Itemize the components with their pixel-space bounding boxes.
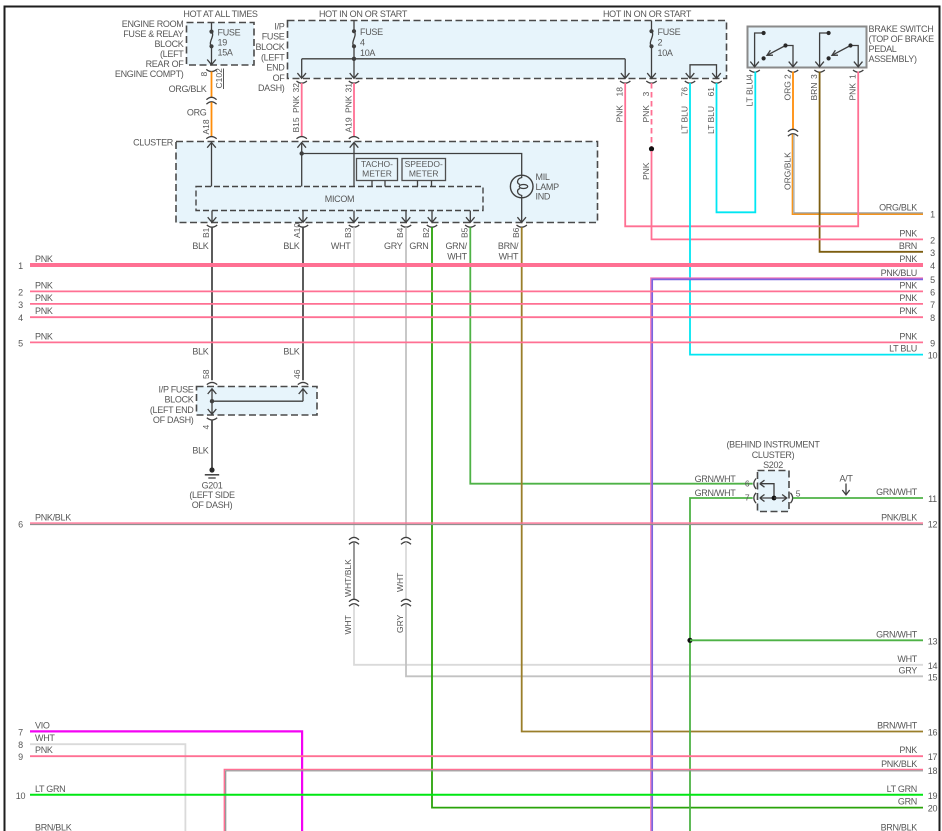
svg-text:6: 6 xyxy=(930,287,935,297)
second inline connector on B3 wire xyxy=(349,599,359,601)
svg-text:(LEFT END: (LEFT END xyxy=(150,405,194,415)
svg-text:BRN: BRN xyxy=(899,241,917,251)
svg-text:PNK/BLU: PNK/BLU xyxy=(881,268,917,278)
svg-text:6: 6 xyxy=(745,478,750,488)
svg-text:4: 4 xyxy=(360,37,365,47)
svg-text:4: 4 xyxy=(744,74,754,79)
svg-text:10: 10 xyxy=(16,791,26,801)
svg-text:GRY: GRY xyxy=(384,241,403,251)
svg-text:OF DASH): OF DASH) xyxy=(153,415,194,425)
brake switch box xyxy=(748,27,867,68)
svg-text:(TOP OF BRAKE: (TOP OF BRAKE xyxy=(869,34,935,44)
svg-text:WHT: WHT xyxy=(447,251,467,261)
svg-text:32: 32 xyxy=(291,83,301,93)
inline connector pair on B3 wire xyxy=(349,537,359,539)
svg-text:4: 4 xyxy=(201,425,211,430)
svg-text:GRN/WHT: GRN/WHT xyxy=(876,487,918,497)
wire GRY to right edge row 15 xyxy=(406,604,923,676)
svg-text:LT GRN: LT GRN xyxy=(35,784,65,794)
wire PNK/BLK row 6 left / 12 right xyxy=(30,522,923,524)
wires inside lower i/p fuse block xyxy=(208,389,308,414)
svg-text:PNK: PNK xyxy=(35,306,53,316)
svg-text:VIO: VIO xyxy=(35,720,50,730)
svg-text:END: END xyxy=(266,63,285,73)
svg-text:PEDAL: PEDAL xyxy=(869,44,897,54)
svg-text:PNK: PNK xyxy=(899,280,917,290)
svg-text:3: 3 xyxy=(930,248,935,258)
svg-text:BLOCK: BLOCK xyxy=(164,395,193,405)
wire PNK 32 (B15) xyxy=(301,83,303,136)
svg-text:B5: B5 xyxy=(460,227,470,238)
wire WHT to right edge row 14 xyxy=(354,604,923,665)
svg-text:GRN/WHT: GRN/WHT xyxy=(876,629,918,639)
right edge labels xyxy=(876,203,918,831)
S202 pin 5 connector xyxy=(774,495,787,502)
svg-text:BLK: BLK xyxy=(192,241,208,251)
svg-text:18: 18 xyxy=(928,766,938,776)
svg-text:BRN/WHT: BRN/WHT xyxy=(877,721,918,731)
wire LT GRN row 10 left / 19 right xyxy=(30,794,923,796)
svg-text:PNK: PNK xyxy=(899,306,917,316)
svg-text:20: 20 xyxy=(928,804,938,814)
svg-text:BRAKE SWITCH: BRAKE SWITCH xyxy=(869,24,934,34)
svg-text:GRY: GRY xyxy=(899,665,918,675)
connector arc at pin 4 xyxy=(207,418,217,420)
svg-text:(LEFT: (LEFT xyxy=(261,52,285,62)
svg-text:19: 19 xyxy=(218,38,228,48)
wire GRN/WHT riser to S202 pin 7 xyxy=(690,498,753,831)
wire PNK row 3 left / 7 right xyxy=(30,303,923,305)
svg-text:LT BLU: LT BLU xyxy=(679,106,689,134)
svg-text:B4: B4 xyxy=(395,227,405,238)
svg-text:ASSEMBLY): ASSEMBLY) xyxy=(869,54,917,64)
wire LT BLU 61 to brake switch pin 4 xyxy=(717,72,756,213)
svg-text:PNK: PNK xyxy=(35,254,53,264)
inline connector pair on B4 wire xyxy=(401,537,411,539)
svg-text:(LEFT: (LEFT xyxy=(160,49,184,59)
svg-text:GRN: GRN xyxy=(898,797,917,807)
svg-text:B1: B1 xyxy=(201,227,211,238)
svg-text:OF DASH): OF DASH) xyxy=(192,500,233,510)
svg-text:3: 3 xyxy=(809,74,819,79)
svg-text:A/T: A/T xyxy=(839,473,853,483)
left edge numbers xyxy=(16,261,26,801)
svg-text:B2: B2 xyxy=(421,227,431,238)
cluster wire color labels xyxy=(192,241,519,261)
connector arcs below cluster xyxy=(207,225,527,227)
svg-text:4: 4 xyxy=(930,261,935,271)
svg-text:1: 1 xyxy=(18,261,23,271)
wire WHT segment xyxy=(405,542,407,599)
svg-text:8: 8 xyxy=(930,313,935,323)
svg-text:PNK: PNK xyxy=(899,331,917,341)
connector arcs at i/p fuse block pins 58 and 46 xyxy=(207,382,217,384)
MIL lamp indicator xyxy=(510,175,533,198)
svg-text:MIL: MIL xyxy=(536,172,550,182)
svg-text:GRN: GRN xyxy=(409,241,428,251)
wire PNK/BLU riser from row 5 xyxy=(651,278,923,831)
svg-text:2: 2 xyxy=(18,287,23,297)
svg-text:PNK: PNK xyxy=(35,280,53,290)
wire ORG from brake switch pin 2 xyxy=(792,72,794,130)
i/p fuse block (lower) label xyxy=(150,385,194,426)
svg-text:BRN/: BRN/ xyxy=(498,241,519,251)
wire GRN/WHT from S202 pin 5 to right edge row 11 xyxy=(793,497,923,499)
svg-text:(LEFT SIDE: (LEFT SIDE xyxy=(189,490,235,500)
junction on GRN/WHT riser xyxy=(687,638,692,643)
svg-text:PNK: PNK xyxy=(35,331,53,341)
svg-text:PNK: PNK xyxy=(899,293,917,303)
wire BRN to right edge row 3 xyxy=(820,72,923,252)
speedometer box xyxy=(402,159,446,181)
svg-text:11: 11 xyxy=(928,494,937,504)
svg-text:5: 5 xyxy=(930,275,935,285)
jumper between pins 76 and 61 xyxy=(686,65,721,79)
svg-text:13: 13 xyxy=(928,636,938,646)
svg-text:ENGINE ROOM: ENGINE ROOM xyxy=(122,19,184,29)
wire GRN/WHT to right edge row 13 xyxy=(690,639,923,641)
svg-text:9: 9 xyxy=(930,338,935,348)
svg-text:46: 46 xyxy=(292,369,302,379)
svg-text:BLK: BLK xyxy=(192,347,208,357)
wire A19 entry arrow to MICOM xyxy=(350,143,359,187)
svg-text:BRN/BLK: BRN/BLK xyxy=(881,822,918,831)
svg-text:WHT: WHT xyxy=(897,654,917,664)
svg-text:BLOCK: BLOCK xyxy=(255,42,284,52)
svg-text:GRN/WHT: GRN/WHT xyxy=(695,488,737,498)
svg-text:PNK: PNK xyxy=(641,105,651,123)
i/p fuse block box (lower) xyxy=(197,387,318,416)
svg-text:17: 17 xyxy=(928,752,938,762)
svg-text:BLK: BLK xyxy=(283,347,299,357)
svg-text:PNK: PNK xyxy=(344,95,354,113)
svg-text:BLK: BLK xyxy=(192,446,208,456)
wire ORG/BLK from C102 xyxy=(211,72,213,98)
pin arrow 18 xyxy=(624,59,626,78)
svg-text:HOT AT ALL TIMES: HOT AT ALL TIMES xyxy=(183,9,258,19)
splice S202 box xyxy=(758,471,790,512)
MIL lamp wire down to pin B6 xyxy=(517,198,526,223)
svg-text:9: 9 xyxy=(18,752,23,762)
svg-text:15A: 15A xyxy=(218,47,233,57)
svg-text:WHT: WHT xyxy=(499,251,519,261)
wire GRN B2 to right edge row 20 xyxy=(432,227,923,807)
svg-text:WHT: WHT xyxy=(395,573,405,592)
svg-text:16: 16 xyxy=(928,728,938,738)
svg-text:FUSE: FUSE xyxy=(658,27,681,37)
svg-text:7: 7 xyxy=(18,727,23,737)
S202 junction xyxy=(772,496,777,501)
svg-text:PNK: PNK xyxy=(35,293,53,303)
svg-text:PNK/BLK: PNK/BLK xyxy=(881,513,917,523)
pin arrow A19 xyxy=(353,59,355,78)
wire A18 entry arrow to MICOM xyxy=(207,143,216,187)
svg-text:WHT: WHT xyxy=(331,241,351,251)
wire junction B15 to MIL lamp xyxy=(302,154,522,176)
wire ORG to cluster A18 xyxy=(211,102,213,136)
svg-text:8: 8 xyxy=(18,740,23,750)
engine room fuse block label xyxy=(115,19,184,79)
speedometer stubs xyxy=(418,181,432,187)
svg-text:I/P: I/P xyxy=(274,22,284,32)
svg-text:1: 1 xyxy=(848,74,858,79)
svg-text:PNK: PNK xyxy=(899,745,917,755)
svg-text:10A: 10A xyxy=(658,48,673,58)
wire PNK row 9 left / 17 right xyxy=(30,755,923,757)
svg-text:I/P FUSE: I/P FUSE xyxy=(159,385,194,395)
svg-text:DASH): DASH) xyxy=(258,83,285,93)
wire PNK row 4 left / 8 right xyxy=(30,316,923,318)
svg-text:C102: C102 xyxy=(214,68,224,89)
svg-text:METER: METER xyxy=(409,169,439,179)
svg-text:WHT: WHT xyxy=(35,733,55,743)
svg-text:GRN/WHT: GRN/WHT xyxy=(695,474,737,484)
i/p fuse block label xyxy=(255,22,285,94)
svg-text:FUSE: FUSE xyxy=(218,28,241,38)
svg-text:2: 2 xyxy=(782,74,792,79)
svg-text:PNK: PNK xyxy=(291,95,301,113)
wire PNK 18 to brake switch pin 1 xyxy=(625,72,858,227)
wire WHT/BLK segment xyxy=(353,542,355,599)
wire feed inside i/p block to pins B15 / 18 xyxy=(302,58,626,60)
wire ORG/BLK to right edge row 1 xyxy=(792,134,923,214)
svg-text:2: 2 xyxy=(658,37,663,47)
wire GRY B4 xyxy=(405,227,407,537)
wire B15 entry arrow with junction xyxy=(297,143,306,187)
connector C102 pin 8 xyxy=(206,69,216,71)
svg-text:ENGINE COMPT): ENGINE COMPT) xyxy=(115,69,184,79)
svg-text:B3: B3 xyxy=(343,227,353,238)
micom output pin arrows B1 A10 B3 B4 B2 B5 xyxy=(208,211,475,223)
svg-text:7: 7 xyxy=(930,300,935,310)
svg-text:GRY: GRY xyxy=(395,614,405,633)
svg-text:TACHO-: TACHO- xyxy=(361,159,393,169)
fuse F19 15A xyxy=(207,23,216,65)
svg-text:REAR OF: REAR OF xyxy=(146,59,185,69)
svg-text:FUSE & RELAY: FUSE & RELAY xyxy=(123,29,184,39)
connector arcs below i/p fuse block xyxy=(297,81,722,83)
brake switch contact 2 xyxy=(815,33,862,67)
svg-text:2: 2 xyxy=(930,235,935,245)
wire VIO row 7 left xyxy=(30,731,302,831)
svg-text:LT BLU: LT BLU xyxy=(744,78,754,106)
svg-text:18: 18 xyxy=(615,87,625,97)
svg-text:BLK: BLK xyxy=(283,241,299,251)
svg-text:BRN/BLK: BRN/BLK xyxy=(35,822,72,831)
svg-text:12: 12 xyxy=(928,520,938,530)
svg-text:G201: G201 xyxy=(202,481,223,491)
svg-text:OF: OF xyxy=(273,73,286,83)
svg-text:IND: IND xyxy=(536,192,551,202)
micom box xyxy=(196,187,483,211)
svg-text:BRN: BRN xyxy=(809,83,819,101)
S202 pin 7 connector xyxy=(754,493,756,503)
svg-text:PNK: PNK xyxy=(899,228,917,238)
svg-text:PNK: PNK xyxy=(899,254,917,264)
svg-text:A18: A18 xyxy=(201,119,211,134)
svg-text:(BEHIND INSTRUMENT: (BEHIND INSTRUMENT xyxy=(726,440,820,450)
svg-text:S202: S202 xyxy=(763,460,783,470)
svg-text:ORG/BLK: ORG/BLK xyxy=(169,84,207,94)
svg-text:19: 19 xyxy=(928,791,938,801)
fuse F4 10A xyxy=(353,21,355,59)
wire PNK 31 (A19) xyxy=(353,83,355,136)
svg-text:GRN/: GRN/ xyxy=(445,241,467,251)
connector arc at cluster pin A18 xyxy=(206,137,216,139)
wire GRN/WHT B5 to S202 pin 6 xyxy=(470,227,752,484)
S202 pin 6 connector xyxy=(754,479,756,489)
svg-text:61: 61 xyxy=(706,87,716,97)
svg-text:ORG/BLK: ORG/BLK xyxy=(879,203,917,213)
svg-text:10: 10 xyxy=(928,351,938,361)
svg-text:6: 6 xyxy=(18,520,23,530)
junction below fuse F4 xyxy=(352,57,356,61)
svg-text:4: 4 xyxy=(18,313,23,323)
svg-text:7: 7 xyxy=(745,493,750,503)
brake switch contact 1 xyxy=(750,33,797,67)
svg-text:ORG: ORG xyxy=(187,108,207,118)
svg-text:5: 5 xyxy=(796,488,801,498)
svg-text:CLUSTER: CLUSTER xyxy=(133,138,174,148)
wire WHT B3 xyxy=(353,227,355,537)
svg-text:15: 15 xyxy=(928,672,938,682)
svg-text:LT BLU: LT BLU xyxy=(706,106,716,134)
wire BRN/WHT B6 to right edge row 16 xyxy=(522,227,923,731)
svg-text:PNK/BLK: PNK/BLK xyxy=(881,759,917,769)
wire BLK B1 xyxy=(211,227,213,380)
svg-text:3: 3 xyxy=(641,92,651,97)
svg-text:FUSE: FUSE xyxy=(262,32,285,42)
fuse F2 10A xyxy=(647,21,656,79)
wire PNK to right edge row 2 xyxy=(652,151,924,239)
second inline connector on B4 wire xyxy=(401,599,411,601)
wire PNK row 5 left / 9 right xyxy=(30,341,923,343)
svg-text:10A: 10A xyxy=(360,48,375,58)
svg-text:3: 3 xyxy=(18,300,23,310)
svg-text:MICOM: MICOM xyxy=(325,194,355,204)
svg-text:31: 31 xyxy=(344,83,354,93)
svg-text:8: 8 xyxy=(199,72,209,77)
svg-text:B15: B15 xyxy=(291,117,301,132)
svg-text:WHT: WHT xyxy=(343,615,353,634)
svg-text:14: 14 xyxy=(928,661,938,671)
right edge numbers xyxy=(928,210,938,814)
inline connector on ORG wire xyxy=(788,129,798,131)
connector arcs below brake switch xyxy=(749,70,863,72)
svg-text:BLOCK: BLOCK xyxy=(154,39,183,49)
svg-text:PNK: PNK xyxy=(848,83,858,101)
pin arrow B15 xyxy=(301,59,303,78)
i/p fuse block box (top) xyxy=(288,21,727,79)
svg-text:1: 1 xyxy=(930,210,935,220)
svg-text:WHT/BLK: WHT/BLK xyxy=(343,559,353,597)
svg-text:FUSE: FUSE xyxy=(360,27,383,37)
tachometer stubs xyxy=(372,181,385,187)
wire PNK/BLK row 18 right xyxy=(224,769,923,831)
svg-text:METER: METER xyxy=(362,169,392,179)
svg-text:CLUSTER): CLUSTER) xyxy=(752,450,795,460)
svg-text:A10: A10 xyxy=(292,223,302,238)
svg-text:HOT IN ON OR START: HOT IN ON OR START xyxy=(603,9,692,19)
svg-text:ORG: ORG xyxy=(782,81,792,100)
svg-text:76: 76 xyxy=(679,87,689,97)
svg-text:PNK: PNK xyxy=(35,745,53,755)
tachometer box xyxy=(357,159,398,181)
svg-text:PNK: PNK xyxy=(641,162,651,180)
svg-text:PNK/BLK: PNK/BLK xyxy=(35,513,71,523)
engine room fuse & relay block box xyxy=(187,23,255,66)
wire BLK to ground xyxy=(211,420,213,469)
splice on PNK wire xyxy=(649,146,654,151)
wire PNK row 1 left / 4 right (thick) xyxy=(30,263,923,267)
wire WHT row 8 left xyxy=(30,744,185,831)
svg-text:LAMP: LAMP xyxy=(536,182,560,192)
svg-text:ORG/BLK: ORG/BLK xyxy=(782,152,792,190)
cluster box xyxy=(176,142,598,223)
svg-text:B6: B6 xyxy=(511,227,521,238)
svg-text:LT BLU: LT BLU xyxy=(889,344,917,354)
wire PNK row 2 left / 6 right xyxy=(30,290,923,292)
wire BLK A10 xyxy=(302,227,304,380)
ground G201 xyxy=(209,467,214,472)
svg-text:SPEEDO-: SPEEDO- xyxy=(405,159,443,169)
svg-text:A19: A19 xyxy=(344,117,354,132)
svg-text:HOT IN ON OR START: HOT IN ON OR START xyxy=(319,9,408,19)
wire LT BLU 76 to right edge row 10 xyxy=(690,83,923,355)
svg-text:LT GRN: LT GRN xyxy=(887,784,917,794)
svg-text:PNK: PNK xyxy=(615,105,625,123)
svg-text:5: 5 xyxy=(18,338,23,348)
wire PNK 3 dashed segment xyxy=(651,83,653,147)
inline connector on ORG wire xyxy=(206,97,216,99)
svg-text:58: 58 xyxy=(201,369,211,379)
